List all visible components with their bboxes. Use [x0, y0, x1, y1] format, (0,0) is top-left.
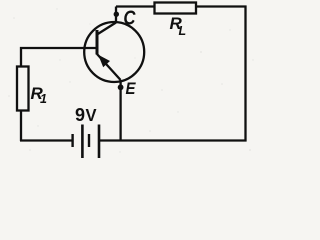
- resistor RL (box): [155, 3, 197, 14]
- resistor R1 (box): [17, 67, 29, 111]
- svg-text:V: V: [85, 104, 96, 125]
- transistor Q1 emitter diagonal: [97, 54, 121, 80]
- svg-text:9: 9: [75, 105, 85, 125]
- wire: right side vertical: [244, 6, 246, 142]
- wire: R1 bottom lead to bottom rail: [20, 111, 22, 142]
- wire: base wire from left corner down to R1 and right to base: [21, 48, 97, 67]
- transistor Q1 collector diagonal: [97, 23, 116, 35]
- battery B1 long plate: [81, 125, 84, 159]
- wire: bottom rail left segment (to battery): [20, 139, 73, 141]
- wire: top rail from node C to top-right corner: [116, 5, 247, 7]
- wire: collector lead up to top rail: [115, 7, 117, 23]
- battery B1 short plate (right cell): [88, 134, 90, 147]
- node C dot: [114, 12, 119, 17]
- transistor Q1 base bar: [96, 30, 99, 55]
- battery B1 short plate (left): [71, 134, 73, 147]
- transistor Q1 emitter arrowhead (points toward base: PNP): [98, 55, 110, 67]
- svg-text:C: C: [123, 6, 136, 29]
- wire: emitter lead down to bottom rail: [119, 80, 121, 142]
- svg-text:L: L: [179, 24, 187, 38]
- node E dot: [118, 84, 124, 90]
- wire: bottom rail right segment (battery to bottom-right corner): [99, 139, 247, 141]
- svg-text:E: E: [125, 80, 136, 98]
- svg-text:1: 1: [40, 92, 47, 106]
- transistor Q1 circle: [84, 22, 144, 82]
- battery B1 long plate (right): [98, 125, 101, 159]
